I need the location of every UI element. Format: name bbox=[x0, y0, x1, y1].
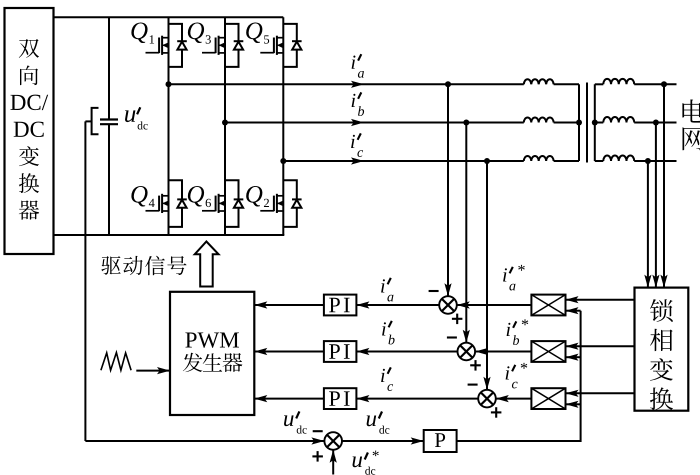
wire: bridge leg at x=283.3 bbox=[282, 17, 284, 235]
transistor Q2 bbox=[260, 194, 283, 213]
wire: reference into summing junction b bbox=[475, 348, 531, 355]
transformer secondary winding phase b bbox=[595, 117, 677, 122]
wire: secondary neutral bus bbox=[594, 84, 596, 161]
wire: i'c feedback drop into summing junction bbox=[483, 161, 490, 390]
label: grid 电网 bbox=[682, 99, 700, 150]
transistor Q3 bbox=[202, 36, 225, 55]
wire: grid voltage sense phase a into phase-locked block bbox=[660, 84, 667, 287]
wire: PI output into PWM generator (phase c) bbox=[254, 395, 324, 402]
transformer primary winding phase b bbox=[524, 117, 579, 122]
capacitor C (DC link) bbox=[100, 17, 118, 235]
wire: carrier input into PWM generator bbox=[136, 367, 170, 374]
label i'b* (current reference, row b) bbox=[507, 319, 529, 345]
hollow arrow: drive signals into bridge bbox=[195, 242, 219, 287]
label i'c on phase line bbox=[351, 133, 363, 157]
label u'dc (DC-link voltage) bbox=[125, 107, 148, 129]
label: plus sign at summing junction a bbox=[452, 314, 463, 325]
wire: reference into summing junction a bbox=[457, 301, 532, 308]
transformer secondary winding phase c bbox=[595, 156, 677, 161]
label i'a on phase line bbox=[352, 54, 364, 78]
body diode of Q3 bbox=[225, 24, 243, 67]
wire: u_dc sense line down the left side bbox=[84, 121, 86, 441]
label Q1 bbox=[131, 22, 154, 43]
node: secondary neutral junction bbox=[592, 120, 598, 126]
summing junction for phase c current bbox=[478, 390, 496, 408]
wire: bridge leg at x=168.5 bbox=[168, 17, 170, 235]
label i'b on phase line bbox=[352, 92, 364, 116]
wire: bottom DC rail bbox=[54, 234, 285, 236]
label: minus sign at summing junction a bbox=[429, 290, 439, 292]
wire: phase c line with current arrow i'c bbox=[283, 157, 524, 164]
node: grid voltage tap phase c bbox=[645, 158, 651, 164]
wire: sine template from phase-locked block into multiplier c bbox=[566, 390, 635, 397]
P controller block bbox=[424, 430, 457, 452]
block: phase-locked transform 锁相变换 bbox=[635, 288, 689, 411]
wire: sine template from phase-locked block into multiplier b bbox=[566, 343, 635, 350]
transformer secondary winding phase a bbox=[595, 79, 677, 84]
wire: amplitude input from P controller bus into multiplier a bbox=[566, 307, 581, 314]
node: phase c midpoint bbox=[280, 158, 286, 164]
multiplier block (phase b reference) bbox=[531, 341, 565, 362]
voltage tap bracket across capacitor bbox=[85, 108, 98, 134]
label: plus sign at dc summing junction bbox=[312, 451, 323, 462]
wire: grid voltage sense phase c into phase-locked block bbox=[644, 161, 651, 288]
label: plus sign at summing junction c bbox=[491, 407, 502, 418]
body diode of Q5 bbox=[283, 24, 301, 67]
label Q2 bbox=[246, 186, 269, 207]
label: drive signal 驱动信号 bbox=[101, 256, 186, 275]
label: minus sign at dc summing junction bbox=[313, 430, 323, 432]
body diode of Q4 bbox=[169, 180, 187, 227]
wire: P output bus up to multipliers bbox=[457, 311, 581, 441]
label Q3 bbox=[188, 22, 211, 43]
wire: error output to PI controller b bbox=[356, 348, 457, 355]
summing junction for phase b current bbox=[458, 343, 476, 361]
body diode of Q6 bbox=[225, 180, 243, 227]
label: plus sign at summing junction b bbox=[470, 360, 481, 371]
label i'a (current feedback, row a) bbox=[381, 278, 393, 302]
wire: i'a feedback drop into summing junction bbox=[444, 84, 451, 296]
wire: dc error into P controller bbox=[342, 437, 424, 444]
wire: reference into summing junction c bbox=[496, 395, 532, 402]
wire: phase b line with current arrow i'b bbox=[225, 119, 524, 126]
wire: grid voltage sense phase b into phase-locked block bbox=[652, 123, 659, 288]
wire: amplitude input from P controller bus into multiplier b bbox=[566, 354, 581, 361]
node: current sense tap phase a bbox=[445, 81, 451, 87]
wire: error output to PI controller c bbox=[356, 395, 478, 402]
wire: error output to PI controller a bbox=[356, 301, 439, 308]
node: current sense tap phase b bbox=[463, 120, 469, 126]
label Q5 bbox=[246, 22, 269, 43]
transistor Q1 bbox=[146, 36, 169, 55]
transistor Q6 bbox=[202, 194, 225, 213]
triangle carrier wave symbol bbox=[101, 353, 131, 371]
wire: u'dc* reference up into dc summing junction bbox=[330, 450, 337, 475]
PI controller block (phase c) bbox=[324, 388, 357, 409]
label Q6 bbox=[188, 186, 211, 207]
label i'a* (current reference, row a) bbox=[503, 265, 525, 291]
wire: PI output into PWM generator (phase b) bbox=[254, 348, 324, 355]
label Q4 bbox=[131, 186, 154, 207]
label i'c (current feedback, row c) bbox=[381, 367, 393, 391]
wire: top DC rail bbox=[54, 16, 284, 18]
node: phase a midpoint bbox=[166, 81, 172, 87]
label u'dc* reference bbox=[353, 451, 379, 475]
label u'dc at dc summing junction bbox=[284, 411, 307, 433]
multiplier block (phase a reference) bbox=[531, 295, 565, 316]
transformer primary winding phase a bbox=[524, 79, 579, 84]
wire: i'b feedback drop into summing junction bbox=[463, 123, 470, 343]
PI controller block (phase b) bbox=[324, 341, 357, 362]
wire: bridge leg at x=225.0 bbox=[224, 17, 226, 235]
label: minus sign at summing junction c bbox=[468, 384, 478, 386]
left box: bidirectional DC/DC converter 双向DC/DC变换器 bbox=[5, 8, 54, 254]
transistor Q5 bbox=[260, 36, 283, 55]
wire: u_dc into dc summing junction bbox=[85, 437, 324, 444]
multiplier block (phase c reference) bbox=[531, 388, 565, 409]
transistor Q4 bbox=[146, 194, 169, 213]
PI controller block (phase a) bbox=[324, 295, 357, 316]
transformer primary winding phase c bbox=[524, 156, 579, 161]
node: primary neutral junction bbox=[576, 120, 582, 126]
label: minus sign at summing junction b bbox=[447, 336, 457, 338]
node: current sense tap phase c bbox=[484, 158, 490, 164]
body diode of Q1 bbox=[169, 24, 187, 67]
label i'c* (current reference, row c) bbox=[506, 363, 528, 389]
body diode of Q2 bbox=[283, 180, 301, 227]
wire: primary neutral bus bbox=[578, 84, 580, 161]
summing junction for phase a current bbox=[439, 296, 457, 314]
block: PWM generator PWM发生器 bbox=[170, 292, 254, 415]
wire: PI output into PWM generator (phase a) bbox=[254, 301, 324, 308]
wire: sine template from phase-locked block into multiplier a bbox=[566, 296, 635, 303]
node: grid voltage tap phase b bbox=[653, 120, 659, 126]
label i'b (current feedback, row b) bbox=[382, 321, 394, 345]
node: phase b midpoint bbox=[222, 120, 228, 126]
label u'dc before P controller bbox=[367, 412, 390, 434]
transformer core bbox=[586, 83, 588, 163]
node: grid voltage tap phase a bbox=[661, 81, 667, 87]
summing junction for dc voltage bbox=[324, 432, 342, 450]
wire: phase a line with current arrow i'a bbox=[169, 81, 524, 88]
wire: amplitude input from P controller bus into multiplier c bbox=[566, 401, 581, 408]
